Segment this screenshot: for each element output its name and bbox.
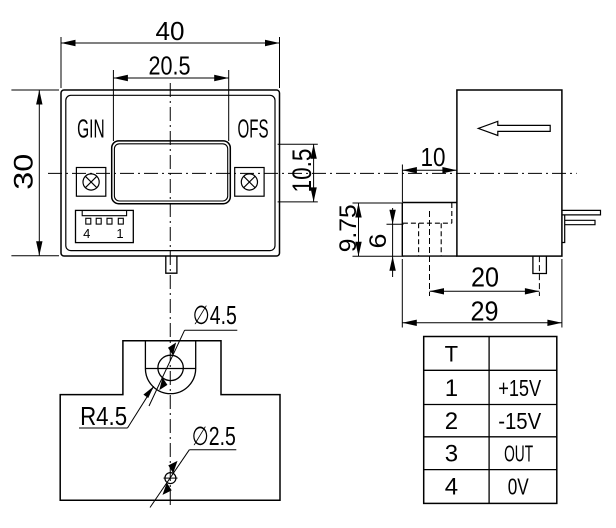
svg-text:R4.5: R4.5 <box>80 401 127 431</box>
svg-text:1: 1 <box>445 375 458 402</box>
bottom view outline <box>60 341 280 501</box>
right screw circle <box>241 174 257 190</box>
svg-text:GIN: GIN <box>77 114 105 144</box>
svg-text:30: 30 <box>9 154 39 190</box>
step bottom <box>402 255 457 257</box>
horizontal centerline <box>48 172 577 174</box>
hole circle 2.5 <box>165 473 176 484</box>
svg-text:0V: 0V <box>508 474 529 500</box>
bottom tab <box>166 256 177 273</box>
left screw circle <box>83 174 99 190</box>
hole circle 4.5 <box>158 355 183 380</box>
svg-text:OUT: OUT <box>504 441 533 467</box>
svg-text:1: 1 <box>116 226 123 241</box>
svg-text:2: 2 <box>445 408 458 435</box>
svg-text:∅4.5: ∅4.5 <box>193 300 237 330</box>
svg-text:9.75: 9.75 <box>335 204 362 252</box>
tab hidden centerline (ext for 20) <box>538 256 540 296</box>
body inner rect <box>66 95 275 250</box>
svg-text:OFS: OFS <box>238 114 269 144</box>
window outer <box>112 141 231 204</box>
svg-text:29: 29 <box>471 296 499 327</box>
svg-text:T: T <box>445 342 458 367</box>
right screw box <box>235 168 264 197</box>
hidden center line (ext for 20) <box>429 211 431 296</box>
step top <box>402 202 457 204</box>
connector outer box <box>76 210 134 242</box>
svg-text:3: 3 <box>445 441 458 468</box>
svg-text:6: 6 <box>365 234 392 249</box>
svg-text:10.5: 10.5 <box>287 149 317 193</box>
direction arrow <box>478 121 550 135</box>
connector pin squares <box>86 218 91 224</box>
window inner <box>114 144 227 201</box>
svg-text:20.5: 20.5 <box>149 51 191 81</box>
boss chord <box>145 368 195 370</box>
boss cut verticals <box>144 341 146 369</box>
boss arc R4.5 <box>145 369 195 394</box>
pin 1 <box>562 210 601 215</box>
step left <box>401 203 403 257</box>
svg-text:40: 40 <box>156 16 185 46</box>
side tab <box>533 256 547 273</box>
pin 2 <box>565 220 595 224</box>
hidden slot lines <box>403 222 452 224</box>
svg-text:20: 20 <box>471 262 499 293</box>
left screw box <box>76 168 105 197</box>
svg-text:4: 4 <box>445 474 458 501</box>
pin strip <box>562 215 565 243</box>
svg-text:10: 10 <box>421 142 446 172</box>
body outer rect <box>61 90 280 256</box>
vertical centerline <box>169 83 171 505</box>
svg-text:-15V: -15V <box>498 408 542 434</box>
svg-text:+15V: +15V <box>498 375 542 401</box>
svg-text:∅2.5: ∅2.5 <box>192 421 236 451</box>
side body rect <box>457 90 562 256</box>
connector notch <box>82 210 126 215</box>
svg-text:4: 4 <box>83 226 90 241</box>
